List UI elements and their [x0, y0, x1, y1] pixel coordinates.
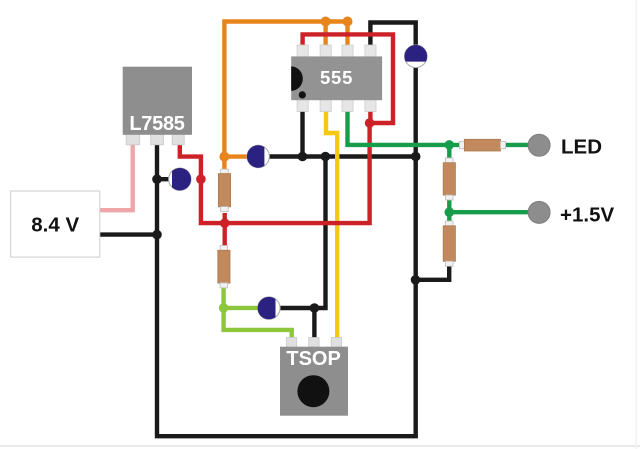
svg-text:L7585: L7585 — [129, 113, 184, 135]
svg-text:555: 555 — [320, 67, 353, 88]
svg-text:TSOP: TSOP — [286, 348, 340, 370]
svg-text:LED: LED — [561, 136, 602, 159]
svg-text:+1.5V: +1.5V — [560, 204, 614, 227]
svg-text:8.4 V: 8.4 V — [31, 213, 79, 236]
